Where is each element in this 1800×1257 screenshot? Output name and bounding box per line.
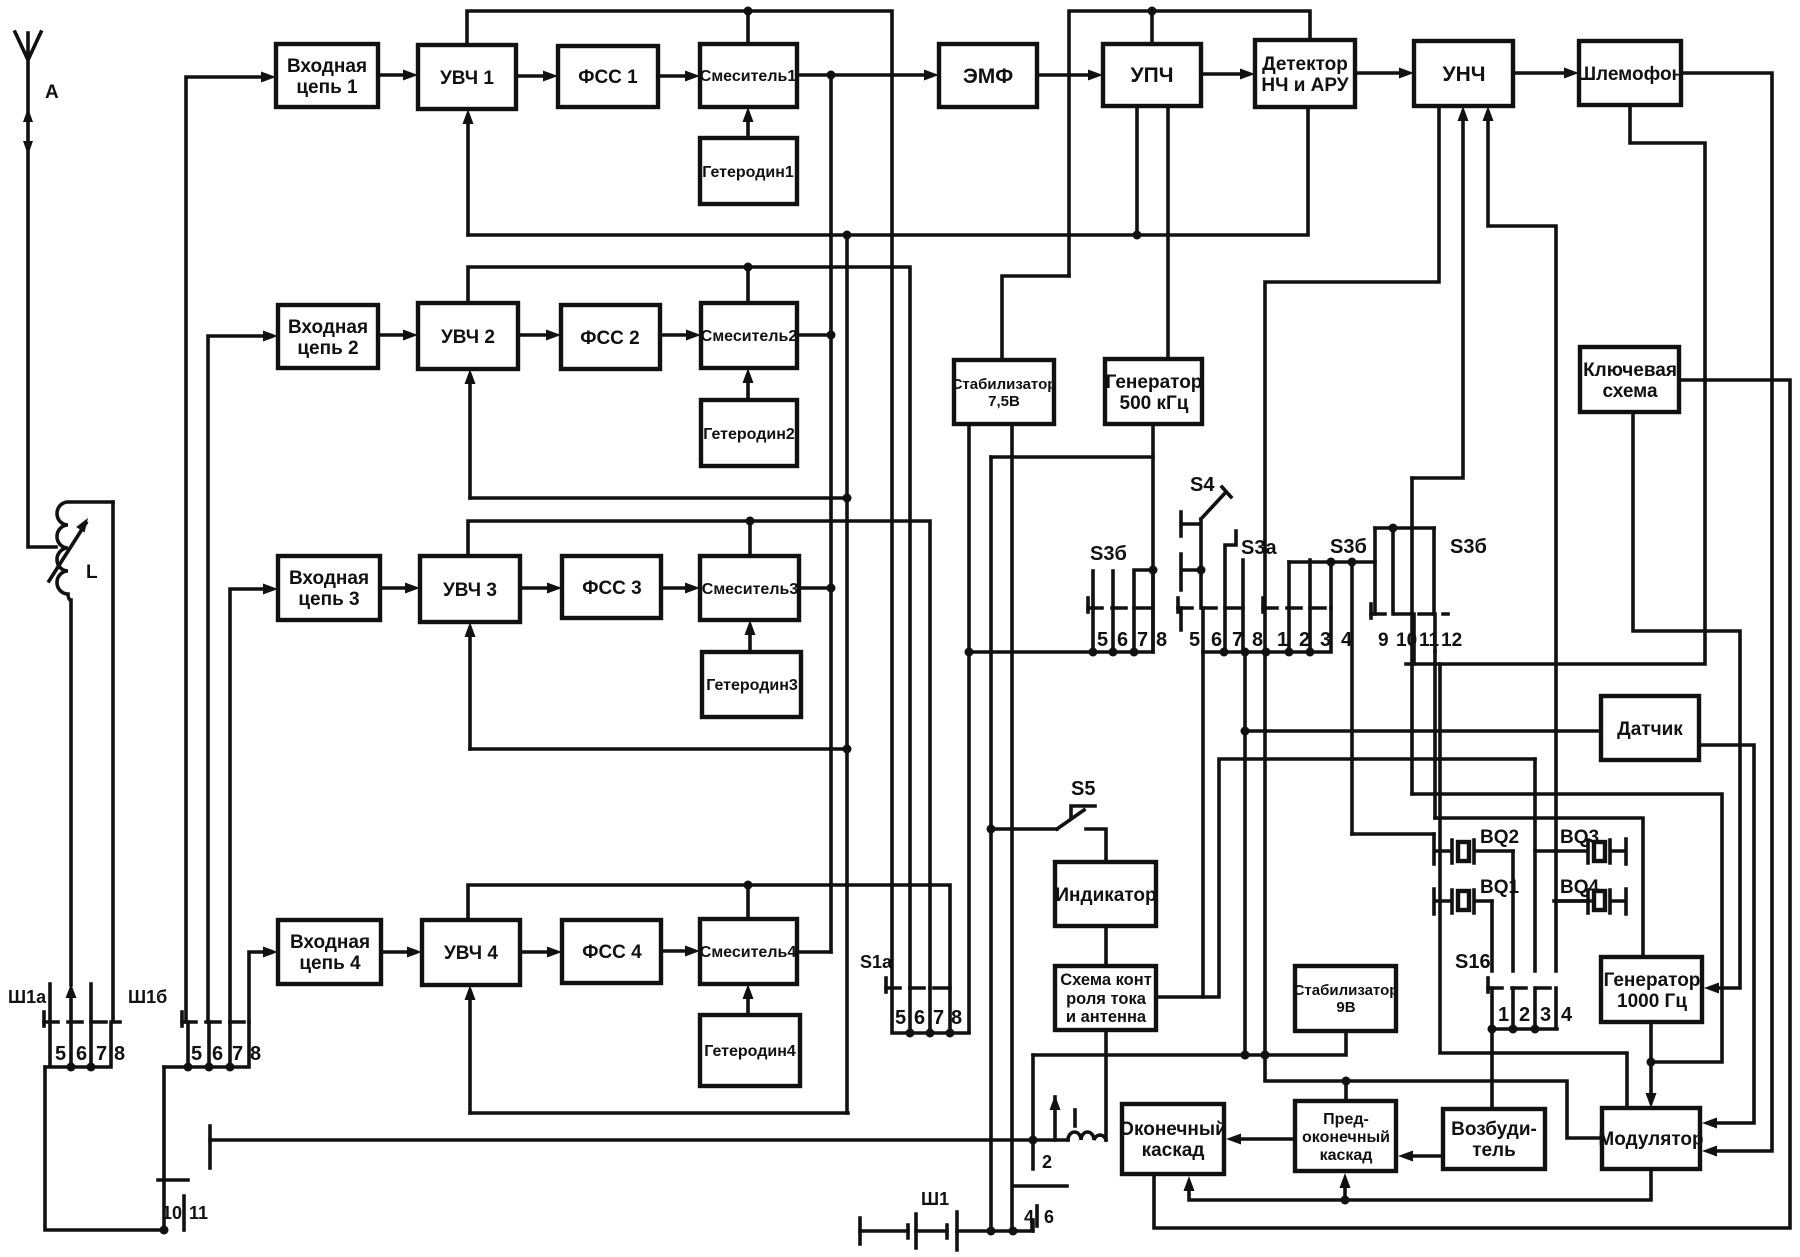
wire Датчик right wire to Модулятор upper input [1699, 745, 1754, 1129]
wire Стабилизатор 7,5В right pin to battery [1010, 424, 1014, 1231]
block Гетеродин 4 [700, 1015, 800, 1086]
svg-text:Индикатор: Индикатор [1055, 885, 1156, 906]
wire 7.5V rail bus y=652 [965, 424, 1154, 1032]
svg-text:Схема конт: Схема конт [1060, 971, 1152, 989]
wire Датчик left wire [1245, 729, 1601, 733]
svg-text:УВЧ 4: УВЧ 4 [444, 943, 498, 964]
wire Генератор 500 bottom pin [1149, 424, 1158, 608]
svg-text:S3б: S3б [1090, 543, 1127, 565]
wire Пред-оконечный top pin [1344, 1081, 1348, 1101]
block Гетеродин 1 [700, 138, 797, 204]
wire pins C below to bus [1265, 608, 1310, 652]
wire S16 pins below and bus [1488, 988, 1558, 1034]
wire bold descent B8 x=1245 [1241, 652, 1250, 1060]
wire pins B below stubs [1181, 608, 1243, 652]
svg-text:3: 3 [1540, 1004, 1551, 1026]
block УВЧ 2 [418, 303, 518, 369]
wire ВЦ3 to УВЧ3 [380, 583, 420, 594]
wire Ш1а pin5 down-left loop [45, 1067, 164, 1230]
svg-text:7,5В: 7,5В [988, 393, 1020, 410]
block Стабилизатор 7,5В [952, 360, 1057, 424]
block Входная цепь 2 [278, 305, 378, 368]
wire wire y=562 C2 to D9 [1289, 558, 1375, 567]
block ФСС 4 [562, 920, 661, 983]
svg-text:6: 6 [1117, 629, 1128, 651]
svg-text:УВЧ 2: УВЧ 2 [441, 327, 495, 348]
wire Схема контроля right wire [1156, 759, 1535, 997]
wire Детектор to УНЧ [1355, 68, 1414, 79]
block ФСС 3 [562, 556, 661, 618]
wire ФСС4 to Смеситель4 [661, 946, 700, 957]
svg-text:Входная: Входная [290, 932, 370, 953]
wire S16 pin1 to Возбудитель top [1490, 1029, 1494, 1109]
crystal BQ1 [1434, 889, 1492, 914]
connector pin numbers group D [1378, 630, 1462, 651]
connector dashed line group A [1088, 598, 1158, 612]
block Пред-оконечный каскад [1295, 1101, 1396, 1171]
block Индикатор [1055, 862, 1157, 926]
svg-text:Ш1: Ш1 [921, 1189, 949, 1209]
wire pin C3 stub above [1308, 560, 1312, 608]
svg-text:5: 5 [55, 1043, 66, 1065]
wire wire y=818 to Генератор 1000 top [1435, 818, 1643, 957]
wire wire y=528 D9-D12 [1375, 524, 1434, 533]
svg-text:Возбуди-: Возбуди- [1451, 1119, 1537, 1140]
block Шлемофон [1577, 41, 1683, 105]
connector pin numbers Ш1б [191, 1043, 261, 1065]
wire УВЧ4 AGC riser [468, 998, 472, 1113]
wire Смеситель1 top pin [746, 11, 750, 44]
crystal BQ2 [1434, 834, 1513, 864]
svg-text:НЧ и АРУ: НЧ и АРУ [1261, 75, 1348, 96]
wire junction on antenna line x=1033 [1029, 1136, 1038, 1145]
connector pin numbers S1a [895, 1007, 962, 1029]
wire pin B8 stub above [1241, 560, 1245, 608]
svg-text:4: 4 [1341, 629, 1353, 651]
svg-text:5: 5 [1097, 629, 1108, 651]
svg-text:Модулятор: Модулятор [1598, 1129, 1703, 1150]
svg-text:цепь 2: цепь 2 [297, 338, 358, 359]
block Входная цепь 4 [278, 920, 381, 984]
connector pin numbers S16 [1498, 1004, 1573, 1026]
wire Возбудитель to Пред-оконечный arrow [1398, 1151, 1443, 1162]
svg-text:цепь 4: цепь 4 [299, 953, 361, 974]
wire Гетеродин1 to Смеситель1 [743, 107, 754, 138]
svg-text:Стабилизатор: Стабилизатор [952, 376, 1057, 393]
wire Гетеродин4 to Смеситель4 [743, 984, 754, 1015]
wire УВЧ1 to ФСС1 [516, 71, 558, 82]
connector dashed line group D [1371, 604, 1448, 618]
block УПЧ [1103, 44, 1201, 106]
svg-text:A: A [45, 82, 59, 103]
svg-text:S3а: S3а [1241, 537, 1277, 559]
svg-text:Стабилизатор: Стабилизатор [1294, 982, 1399, 999]
block Смеситель 4 [700, 919, 797, 984]
svg-text:Ключевая: Ключевая [1583, 360, 1677, 381]
wire УВЧ2 to ФСС2 [518, 330, 561, 341]
switch S5 [987, 806, 1107, 862]
wire УНЧ input arrow from BQ/S16 line [1483, 106, 1557, 971]
wire Шлемофон right edge to Модулятор lower input [1681, 73, 1772, 1157]
wire Смеситель4 top pin [746, 885, 750, 919]
svg-text:Входная: Входная [289, 568, 369, 589]
svg-text:8: 8 [1252, 629, 1263, 651]
wire Смеситель2 output [797, 331, 836, 340]
svg-text:BQ3: BQ3 [1560, 827, 1599, 848]
wire УПЧ top pin [1150, 11, 1154, 44]
connector dashed line Ш1б [182, 1012, 254, 1026]
svg-text:УВЧ 3: УВЧ 3 [443, 580, 497, 601]
wire descent D12 to wire 818 [1433, 651, 1437, 818]
wire УПЧ to Детектор [1201, 69, 1255, 80]
svg-text:L: L [86, 562, 98, 583]
connector dashed line group B [1178, 598, 1248, 612]
wire pins A below to bus [1093, 608, 1153, 652]
svg-text:500 кГц: 500 кГц [1120, 393, 1189, 414]
wire Генератор 500 pin hook to A7 [1134, 570, 1153, 608]
wire S5 feed / battery line x=991 [989, 457, 993, 1231]
block ЭМФ [939, 44, 1037, 107]
wire S1a pins below and bus [892, 988, 969, 1038]
svg-text:схема: схема [1602, 381, 1658, 402]
wire Шлемофон bottom pin long wire [1406, 105, 1705, 664]
svg-text:6: 6 [1044, 1207, 1054, 1227]
inductor L (variable, antenna matching coil) [49, 502, 113, 985]
svg-text:4: 4 [1561, 1004, 1573, 1026]
block ФСС 1 [558, 46, 658, 107]
wire УВЧ1 AGC riser [466, 120, 470, 235]
wire row-4 top wire to S1a pin8 [468, 881, 950, 989]
block УВЧ 1 [418, 45, 516, 109]
connector dashed line S1a [886, 978, 956, 992]
svg-text:10: 10 [162, 1203, 182, 1223]
wire stub wire y=1186 [1014, 1184, 1067, 1188]
svg-text:Гетеродин3: Гетеродин3 [706, 677, 798, 694]
svg-text:ФСС 2: ФСС 2 [580, 328, 640, 349]
wire УПЧ bottom-left pin [1135, 106, 1139, 235]
block ФСС 2 [561, 305, 660, 369]
wire descent C1 to Пред/Модулятор feed [1261, 652, 1603, 1138]
svg-text:1: 1 [1498, 1004, 1509, 1026]
svg-text:7: 7 [933, 1007, 944, 1029]
svg-text:ЭМФ: ЭМФ [963, 65, 1013, 88]
wire УВЧ3 AGC riser [468, 635, 472, 749]
svg-text:7: 7 [96, 1043, 107, 1065]
svg-text:Оконечный: Оконечный [1119, 1119, 1227, 1140]
svg-text:ФСС 1: ФСС 1 [578, 67, 638, 88]
svg-text:Датчик: Датчик [1617, 719, 1683, 740]
svg-text:8: 8 [114, 1043, 125, 1065]
svg-text:8: 8 [1156, 629, 1167, 651]
svg-text:Гетеродин1: Гетеродин1 [702, 164, 794, 181]
wire ВЦ4 to УВЧ4 [381, 947, 422, 958]
battery Ш1 [860, 1212, 1032, 1250]
wire ВЦ2 to УВЧ2 [378, 330, 418, 341]
wire pin D9 [1373, 528, 1377, 614]
block Возбудитель [1443, 1109, 1545, 1169]
wire Модулятор bottom feedback wire [1184, 1169, 1652, 1205]
wire Пред-оконечный bottom arrow stub [1343, 1187, 1347, 1200]
wire Смеситель3 top pin [748, 521, 752, 556]
wire row-1 bottom bus УВЧ1 - УПЧ - Детектор [463, 107, 1309, 240]
svg-text:Детектор: Детектор [1262, 54, 1348, 75]
wire ЭМФ to УПЧ [1037, 70, 1103, 81]
svg-text:УПЧ: УПЧ [1131, 64, 1174, 87]
connector pin numbers group B [1189, 629, 1263, 651]
svg-text:Гетеродин4: Гетеродин4 [704, 1043, 796, 1060]
connector pin numbers pins 4 6 [1024, 1207, 1054, 1227]
svg-text:Ш1б: Ш1б [128, 987, 167, 1007]
wire Смеситель3 output [799, 584, 836, 593]
wire pin D10 [1391, 528, 1395, 614]
wire pin 11 stub [182, 1196, 186, 1230]
wire Ключевая схема bottom to Генератор 1000 Гц [1633, 412, 1740, 994]
wire wire y=834 to BQ2 terminal [1352, 832, 1434, 836]
wire bold link pin10 [160, 1067, 169, 1235]
wire row-2 bottom wire [465, 369, 848, 498]
wire УВЧ3 to ФСС3 [520, 583, 562, 594]
block УНЧ [1414, 41, 1513, 106]
svg-text:8: 8 [951, 1007, 962, 1029]
svg-text:Смеситель3: Смеситель3 [702, 581, 799, 598]
block Модулятор [1598, 1108, 1703, 1169]
svg-text:4: 4 [1024, 1207, 1034, 1227]
wire УПЧ bottom-right pin to Генератор 500 [1166, 106, 1170, 359]
block Оконечный каскад [1119, 1104, 1227, 1174]
svg-text:6: 6 [212, 1043, 223, 1065]
wire Стабилизатор 7,5В top feed [1002, 276, 1069, 360]
wire row-1 top wire to S1a pin5 [467, 7, 892, 989]
svg-text:S16: S16 [1455, 951, 1491, 973]
wire Гетеродин2 to Смеситель2 [743, 368, 754, 400]
connector pin numbers pins 10 11 [162, 1203, 208, 1223]
svg-text:6: 6 [914, 1007, 925, 1029]
svg-text:оконечный: оконечный [1302, 1129, 1390, 1146]
svg-text:11: 11 [189, 1203, 208, 1223]
svg-text:1: 1 [1277, 629, 1288, 651]
switch S4 [1181, 487, 1231, 608]
wire УНЧ pin to S3б group C pin 1 [1265, 106, 1439, 608]
wire pins D below stubs [1414, 614, 1435, 664]
transmitter antenna line with matching coil [210, 1095, 1106, 1140]
wire row-3 bottom wire [465, 622, 849, 749]
block Гетеродин 2 [701, 400, 797, 466]
block УВЧ 4 [422, 920, 520, 985]
svg-text:тель: тель [1472, 1140, 1516, 1161]
svg-text:S4: S4 [1190, 474, 1215, 496]
svg-text:УВЧ 1: УВЧ 1 [440, 68, 494, 89]
svg-text:6: 6 [1211, 629, 1222, 651]
connector pin numbers group A [1097, 629, 1167, 651]
block Входная цепь 3 [278, 556, 380, 620]
wire input feed row 4 [249, 947, 278, 1023]
wire row-4 bottom wire [465, 985, 849, 1113]
wire wire y=1053 Модулятор top-left feed [1440, 664, 1627, 1108]
wire УВЧ4 to ФСС4 [520, 947, 562, 958]
svg-text:7: 7 [1137, 629, 1148, 651]
crystal BQ4 [1554, 889, 1626, 914]
wire descent B6 to Схема контроля wire [1201, 652, 1205, 997]
svg-text:S3б: S3б [1450, 536, 1487, 558]
wire mixer output rail x=831 [829, 75, 833, 952]
wire ФСС1 to Смеситель1 [658, 71, 700, 82]
wire pin C4 stub above [1327, 558, 1336, 609]
wire BQ1 pin to S16-1 [1490, 901, 1494, 971]
svg-text:ФСС 3: ФСС 3 [582, 578, 642, 599]
wire input feed row 2 [208, 331, 278, 1023]
svg-text:Генератор: Генератор [1106, 372, 1203, 393]
block УВЧ 3 [420, 556, 520, 622]
svg-text:5: 5 [1189, 629, 1200, 651]
wire Ключевая схема right wire to bottom loop [1154, 380, 1790, 1228]
svg-text:каскад: каскад [1320, 1147, 1373, 1164]
svg-text:S5: S5 [1071, 778, 1095, 800]
svg-text:S3б: S3б [1330, 536, 1367, 558]
wire Генератор 1000 bottom to Модулятор top [1646, 1022, 1657, 1108]
svg-text:BQ4: BQ4 [1560, 877, 1600, 898]
block Стабилизатор 9В [1294, 966, 1399, 1031]
svg-text:Шлемофон: Шлемофон [1577, 64, 1683, 85]
connector dashed line group C [1263, 598, 1335, 612]
wire input feed row 3 [230, 584, 278, 1023]
block Датчик [1601, 696, 1699, 760]
block Ключевая схема [1580, 347, 1679, 412]
svg-text:9В: 9В [1336, 999, 1355, 1016]
wire pin D11 through-line [1410, 478, 1414, 794]
connector pin numbers Ш1а [55, 1043, 125, 1065]
wire pin A5 stub above [1091, 571, 1095, 608]
wire BQ2 pin to S16-2 [1511, 851, 1515, 971]
wire pin D12 [1432, 528, 1436, 614]
block Генератор 1000 Гц [1601, 957, 1702, 1022]
wire Схема контроля bottom pin [1104, 1030, 1108, 1140]
svg-text:УНЧ: УНЧ [1443, 63, 1486, 86]
wire pin C2 stub above [1287, 562, 1291, 608]
svg-text:Смеситель4: Смеситель4 [700, 944, 797, 961]
wire УНЧ to Шлемофон [1513, 68, 1579, 79]
wire wire 457 to Генератор 500 pin [991, 455, 1153, 459]
svg-text:5: 5 [191, 1043, 202, 1065]
connector pin numbers group C [1277, 629, 1353, 651]
wire Индикатор to Схема контроля [1104, 926, 1108, 966]
svg-text:Пред-: Пред- [1323, 1111, 1369, 1128]
svg-text:12: 12 [1441, 630, 1462, 651]
svg-text:7: 7 [232, 1043, 243, 1065]
wire УПЧ top wire to Детектор top [1069, 7, 1310, 277]
crystal BQ3 [1535, 839, 1626, 864]
wire BQ4 lead T [1556, 899, 1590, 903]
wire Пред-оконечный to Оконечный arrow [1226, 1134, 1295, 1145]
svg-text:Смеситель1: Смеситель1 [700, 68, 797, 85]
wire row-3 top wire to S1a pin7 [468, 517, 930, 989]
svg-text:3: 3 [1320, 629, 1331, 651]
wire input feed row 1 [186, 72, 276, 1023]
svg-text:ФСС 4: ФСС 4 [582, 942, 642, 963]
wire ВЦ1 to УВЧ1 [378, 70, 418, 81]
svg-text:2: 2 [1042, 1152, 1052, 1172]
connector Ш1а pins above [50, 502, 113, 1022]
connector blob Ш2 end of antenna line [208, 1126, 212, 1168]
wire УНЧ input arrow from switch D11 line [1412, 106, 1469, 478]
block Генератор 500 кГц [1105, 359, 1202, 424]
wire wire y=1062 from Датчик line [1412, 794, 1722, 1062]
wire Смеситель2 top pin [746, 267, 750, 303]
wire bus B-C y=652 [1203, 608, 1331, 657]
svg-text:6: 6 [76, 1043, 87, 1065]
block Входная цепь 1 [276, 44, 378, 107]
svg-text:Гетеродин2: Гетеродин2 [703, 426, 795, 443]
svg-text:Входная: Входная [287, 56, 367, 77]
wire ФСС2 to Смеситель2 [660, 330, 701, 341]
svg-text:S1а: S1а [860, 952, 893, 972]
svg-text:цепь 3: цепь 3 [298, 589, 359, 610]
svg-text:Входная: Входная [288, 317, 368, 338]
svg-text:2: 2 [1519, 1004, 1530, 1026]
svg-text:и антенна: и антенна [1066, 1008, 1147, 1026]
wire AGC rail x=848 [843, 235, 852, 1113]
svg-text:Смеситель2: Смеситель2 [701, 328, 798, 345]
svg-text:8: 8 [250, 1043, 261, 1065]
wire pin A6 stub above [1111, 571, 1115, 608]
block Смеситель 1 [700, 44, 797, 107]
svg-text:цепь 1: цепь 1 [296, 77, 358, 98]
block Гетеродин 3 [702, 652, 801, 717]
svg-text:каскад: каскад [1142, 1140, 1205, 1161]
svg-text:9: 9 [1378, 630, 1389, 651]
wire BQ3 pin riser from Схема wire [1533, 759, 1537, 971]
block Смеситель 2 [701, 303, 798, 368]
wire descent x=1352 to BQ row [1350, 562, 1354, 834]
pin tick between 4 and 6 [1035, 1206, 1039, 1226]
block Схема контроля тока и антенна [1055, 966, 1156, 1030]
wire Ш1б pins below and bus [164, 1022, 249, 1072]
wire descent x=1033 to Ш2 pin 2 [1031, 1055, 1035, 1169]
connector dashed line S16 [1488, 978, 1560, 992]
wire wire A y=1055 Стабилизатор 9В feed [1033, 1031, 1346, 1060]
block Детектор НЧ и АРУ [1255, 40, 1355, 107]
wire row-2 top wire to S1a pin6 [468, 263, 910, 989]
block Смеситель 3 [700, 556, 799, 620]
connector dashed line Ш1а [44, 1012, 120, 1026]
svg-text:роля тока: роля тока [1066, 990, 1147, 1008]
svg-text:1000 Гц: 1000 Гц [1617, 991, 1687, 1012]
wire Ш2 pin 4 stub to battery bus [1031, 1220, 1035, 1231]
wire Смеситель4 output [797, 950, 831, 954]
wire Ш1а pins below and bus [45, 1022, 111, 1072]
antenna A symbol [15, 32, 56, 547]
connector bar mark [158, 1178, 188, 1182]
wire УВЧ2 AGC riser [468, 382, 472, 498]
svg-text:Генератор: Генератор [1604, 970, 1701, 991]
svg-text:BQ2: BQ2 [1480, 827, 1519, 848]
wire ФСС3 to Смеситель3 [661, 583, 700, 594]
switch S3a pin B7 [1225, 531, 1236, 608]
svg-text:5: 5 [895, 1007, 906, 1029]
svg-text:Ш1а: Ш1а [8, 987, 47, 1007]
wire Гетеродин3 to Смеситель3 [745, 620, 756, 652]
wire Смеситель1 to ЭМФ [797, 70, 939, 81]
